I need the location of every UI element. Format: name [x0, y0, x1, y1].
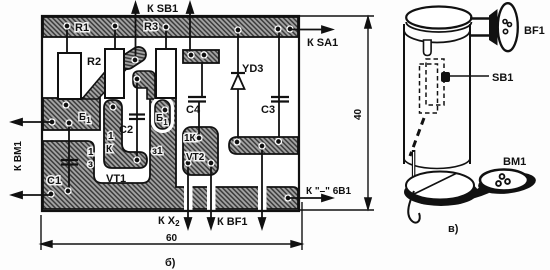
svg-text:C2: C2: [119, 124, 133, 136]
svg-text:40: 40: [353, 108, 364, 120]
svg-text:в): в): [448, 223, 459, 235]
svg-text:К SA1: К SA1: [307, 37, 338, 49]
svg-text:BF1: BF1: [524, 25, 545, 37]
svg-text:К: К: [106, 144, 113, 155]
svg-text:К "–" 6В1: К "–" 6В1: [306, 186, 351, 197]
svg-text:SB1: SB1: [492, 72, 513, 84]
svg-text:C4: C4: [186, 104, 201, 116]
svg-text:R1: R1: [75, 22, 89, 34]
svg-text:C1: C1: [47, 175, 61, 187]
svg-text:VT1: VT1: [106, 173, 126, 185]
svg-text:з: з: [88, 159, 93, 170]
svg-text:BM1: BM1: [503, 156, 526, 168]
svg-text:60: 60: [166, 233, 178, 244]
svg-text:з1: з1: [152, 146, 163, 157]
svg-text:YD3: YD3: [242, 63, 263, 75]
svg-text:R3: R3: [144, 21, 158, 33]
svg-text:R2: R2: [87, 56, 101, 68]
svg-text:1: 1: [88, 147, 94, 158]
svg-text:б): б): [165, 257, 176, 269]
svg-text:К ВМ1: К ВМ1: [13, 141, 24, 171]
svg-text:VT2: VT2: [186, 152, 205, 163]
svg-text:1: 1: [108, 131, 114, 142]
svg-text:C3: C3: [261, 104, 275, 116]
svg-text:1К: 1К: [184, 133, 197, 144]
svg-text:К BF1: К BF1: [217, 216, 248, 228]
svg-text:К SB1: К SB1: [147, 3, 178, 15]
